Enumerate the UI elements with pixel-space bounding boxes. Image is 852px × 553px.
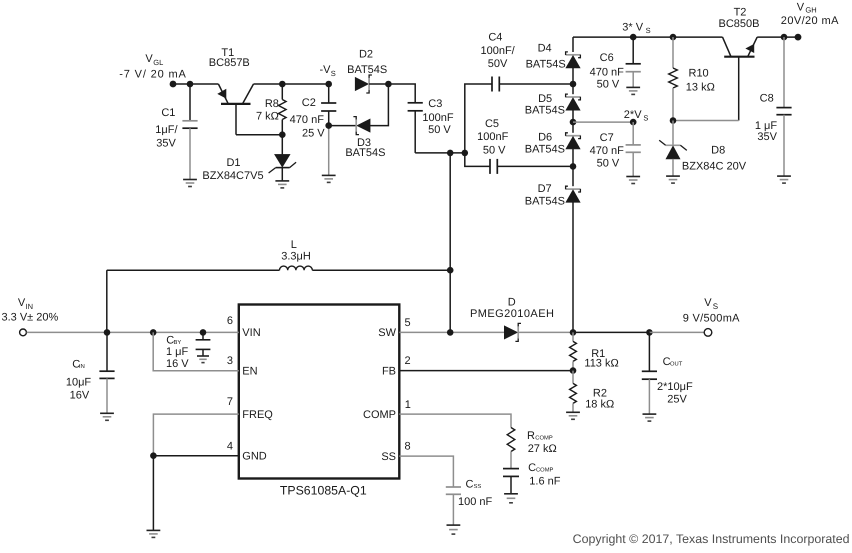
label T2 [719,6,760,30]
svg-text:COMP: COMP [535,434,553,441]
ground (CIN) [100,413,114,420]
label C1 value [155,107,178,150]
svg-text:25 V: 25 V [302,127,325,139]
junction R10 bottom / D8 cathode [670,117,677,124]
ground (C2) [322,175,336,182]
transistor T1 (PNP BC857B) [218,84,254,135]
svg-text:10μF: 10μF [66,377,92,389]
svg-text:V: V [145,53,153,65]
ground (CCOMP) [504,494,518,503]
inductor L (3.3uH) [280,266,313,270]
junction C7 top / 2*VS node [630,119,637,126]
svg-text:16 V: 16 V [166,358,189,370]
junction EN branch [150,329,157,336]
capacitor C5 [490,159,497,174]
capacitor C1 [182,84,197,180]
wire FREQ branch [153,414,238,456]
ground (R2) [566,412,580,419]
junction SW riser top [447,150,454,157]
svg-text:D7: D7 [538,183,552,195]
svg-text:C2: C2 [302,97,316,109]
wire D3 to D2-out node [370,84,388,126]
pin number 3 [227,355,233,367]
wire VIN row [27,331,239,333]
ground (C6) [626,87,640,94]
svg-text:PMEG2010AEH: PMEG2010AEH [470,308,554,320]
schottky diode D (PMEG2010AEH) [504,323,521,341]
svg-text:1μF/: 1μF/ [155,124,178,136]
junction C2 top / -VS node [325,81,332,88]
label T1 [209,47,250,69]
svg-text:18 kΩ: 18 kΩ [585,399,614,411]
label net VGH [781,1,839,27]
label TPS61085A-Q1 [280,483,367,497]
label net VIN [2,297,59,323]
svg-text:IN: IN [79,364,85,370]
wire D2 cathode to C3 [369,84,415,103]
label C5 value [477,118,508,156]
svg-text:C5: C5 [485,118,499,130]
transistor T2 (NPN BC850B) [723,37,758,120]
pin number 4 [227,440,233,452]
svg-text:5: 5 [405,317,411,329]
junction FB node [570,367,577,374]
pin number 6 [227,315,233,327]
label D2 [347,48,387,76]
zener diode D1 (BZX84C7V5) [269,135,297,181]
junction R8 top [279,81,286,88]
svg-text:R: R [527,430,535,442]
svg-text:C: C [528,462,536,474]
wire D7 anode to VS line [572,202,574,332]
wire D cathode to R1 node [519,331,573,333]
svg-text:SS: SS [381,451,396,463]
capacitor C7 [626,122,641,176]
svg-text:C6: C6 [600,52,614,64]
label R10 value [686,67,715,93]
svg-text:6: 6 [227,315,233,327]
svg-text:100nF: 100nF [422,112,453,124]
capacitor C2 [321,84,336,175]
svg-text:8: 8 [405,441,411,453]
svg-text:Copyright © 2017, Texas Instru: Copyright © 2017, Texas Instruments Inco… [573,532,850,546]
capacitor C4 [492,77,499,92]
svg-text:S: S [646,26,651,35]
svg-text:-7 V/ 20 mA: -7 V/ 20 mA [119,68,186,80]
junction C4/C5 branch [462,150,469,157]
svg-text:470 nF: 470 nF [290,114,325,126]
junction COUT top [646,329,653,336]
junction L-SW riser [447,267,454,274]
wire C2 bottom to D3 [329,125,357,127]
svg-text:BAT54S: BAT54S [525,105,565,117]
capacitor COUT [642,332,657,414]
svg-text:VIN: VIN [242,327,260,339]
wire C4 branch [465,84,573,153]
label net 2*VS [624,109,649,122]
pin name COMP [363,409,396,421]
svg-text:BAT54S: BAT54S [525,144,565,156]
junction C8 top [781,34,788,41]
svg-text:3.3 V± 20%: 3.3 V± 20% [2,311,59,323]
svg-text:50 V: 50 V [428,124,451,136]
resistor R10 [669,37,678,120]
wire T1 collector to C2 node [254,83,329,85]
svg-text:C: C [466,479,474,491]
svg-text:SS: SS [474,483,482,490]
label COUT value [657,356,693,406]
junction CBY top [200,329,207,336]
svg-text:470 nF: 470 nF [590,67,625,79]
svg-text:S: S [643,113,648,122]
schottky diode D5 (BAT54S) [566,94,581,110]
svg-text:D6: D6 [538,132,552,144]
wire C5 branch [465,153,573,167]
svg-text:FB: FB [382,365,396,377]
svg-text:BAT54S: BAT54S [345,147,385,159]
resistor RCOMP [507,428,515,469]
schottky diode D6 (BAT54S) [566,133,581,149]
svg-text:COMP: COMP [363,409,396,421]
label C7 value [590,132,625,169]
label CIN value [66,359,92,402]
junction R8 bottom / D1 anode [279,131,286,138]
svg-text:OUT: OUT [670,360,683,367]
label RCOMP value [527,430,557,455]
svg-text:13 kΩ: 13 kΩ [686,82,715,94]
ground (C1) [183,180,197,187]
wire D6 to D7 [572,149,574,186]
wire T1 base to R8 bottom node [236,134,282,136]
wire L to SW riser [312,269,450,271]
capacitor C3 [408,103,423,153]
label R2 value [585,388,614,411]
svg-text:25V: 25V [667,394,687,406]
wire T2 base to R10/D8 node [673,120,739,122]
svg-text:D4: D4 [538,43,552,55]
ground (C7) [626,177,640,184]
wire VGL rail to T1 emitter [173,83,218,85]
label D1 [202,157,263,182]
label D [470,296,554,320]
terminal VS (open) [704,329,712,337]
svg-text:BAT54S: BAT54S [526,58,566,70]
svg-text:BZX84C7V5: BZX84C7V5 [202,170,263,182]
label D5 [525,93,565,117]
svg-text:EN: EN [242,366,257,378]
svg-text:D5: D5 [538,93,552,105]
svg-text:2: 2 [405,355,411,367]
wire D4 to D5 [572,68,574,94]
label D6 [525,132,565,156]
svg-text:100nF: 100nF [477,131,508,143]
junction SW riser bottom [447,329,454,336]
svg-text:C4: C4 [488,32,502,44]
junction chain-C4 node [570,81,577,88]
junction FREQ-GND [150,452,157,459]
label R8 value [256,98,279,122]
svg-text:GH: GH [805,6,816,15]
svg-text:-V: -V [320,64,332,76]
wire FB row [399,370,573,372]
pin number 2 [405,355,411,367]
svg-text:L: L [291,239,297,251]
schottky diode D7 (BAT54S) [566,186,581,202]
label net 3*VS [622,22,650,35]
capacitor CSS [446,487,461,525]
IC U1 TPS61085A-Q1 body [239,305,399,479]
pin name SW [378,327,396,339]
svg-text:113 kΩ: 113 kΩ [584,357,618,369]
junction C1 top [187,81,194,88]
wire D5 to D6 [572,110,574,133]
svg-text:SW: SW [378,327,396,339]
svg-text:BAT54S: BAT54S [347,64,387,76]
junction R10 top [670,34,677,41]
label net VGL [145,53,163,67]
wire SW riser [449,153,451,333]
pin name EN [242,366,257,378]
svg-text:7 kΩ: 7 kΩ [256,111,279,123]
label L value [281,239,311,263]
svg-text:GL: GL [153,58,163,67]
svg-text:GND: GND [242,451,266,463]
schottky diode D4 (BAT54S) [566,52,581,68]
svg-text:1 μF: 1 μF [166,346,189,358]
terminal VGL (filled) [170,81,177,88]
junction C2 bottom / D3 node [325,122,332,129]
svg-text:16V: 16V [70,390,90,402]
svg-text:4: 4 [227,440,233,452]
svg-text:50 V: 50 V [483,144,506,156]
svg-text:C3: C3 [428,98,442,110]
svg-text:7: 7 [227,396,233,408]
svg-text:3* V: 3* V [622,22,643,34]
label net VS [683,297,740,324]
wire 3*VS rail [573,36,723,38]
ground (D1) [275,181,289,188]
svg-text:100nF/: 100nF/ [480,45,515,57]
svg-text:C7: C7 [600,132,614,144]
pin number 7 [227,396,233,408]
svg-text:3.3μH: 3.3μH [281,251,311,263]
schottky diode D2 (BAT54S) [355,75,372,93]
ground (CSS) [447,525,461,534]
svg-text:S: S [713,302,718,311]
svg-text:S: S [331,69,336,78]
ground (COUT) [643,414,657,421]
svg-text:FREQ: FREQ [242,409,273,421]
svg-text:R10: R10 [689,67,709,79]
svg-text:D: D [508,296,516,308]
wire T2 emitter to VGH [757,36,798,38]
resistor R2 [570,371,577,413]
junction chain 2*VS node [570,119,577,126]
label CBY value [166,335,189,371]
svg-text:1: 1 [405,399,411,411]
svg-text:C1: C1 [161,107,175,119]
ground (CBY) [197,356,209,363]
svg-text:D8: D8 [711,144,725,156]
label D8 [682,144,747,172]
svg-text:BC850B: BC850B [719,18,760,30]
svg-text:IN: IN [26,302,33,311]
junction D2 out node [385,81,392,88]
pin name SS [381,451,396,463]
svg-text:BAT54S: BAT54S [525,195,565,207]
svg-text:50 V: 50 V [597,79,620,91]
label C3 value [422,98,453,136]
svg-text:20V/20 mA: 20V/20 mA [781,15,839,27]
wire SS branch [399,456,453,487]
capacitor CBY [196,332,211,356]
label D4 [526,43,566,71]
capacitor C6 [626,37,641,87]
wire SW row [399,331,504,333]
svg-text:35V: 35V [757,131,777,143]
pin name FREQ [242,409,273,421]
label CSS value [458,479,493,508]
svg-text:35V: 35V [156,138,176,150]
ground (GND pin) [147,530,161,537]
svg-text:TPS61085A-Q1: TPS61085A-Q1 [280,483,367,497]
wire EN branch [153,332,239,370]
wire L left leg [107,270,280,332]
svg-text:50 V: 50 V [597,158,620,170]
terminal VIN (open) [20,329,27,336]
svg-text:1.6 nF: 1.6 nF [529,476,560,488]
svg-text:COMP: COMP [536,466,554,473]
pin name FB [382,365,396,377]
label R1 value [584,348,618,369]
junction D-R1-D7 node [570,329,577,336]
label C2 value [290,97,326,139]
wire C3 bottom to pump node [415,152,465,154]
wire COMP branch [399,414,511,427]
label D3 [345,137,385,159]
schottky diode D3 (BAT54S) [353,117,370,135]
label -7 V/ 20 mA [119,68,186,80]
svg-text:27 kΩ: 27 kΩ [528,443,557,455]
svg-text:100 nF: 100 nF [458,496,493,508]
label C8 value [755,93,778,143]
capacitor CCOMP [503,469,519,494]
resistor R8 [279,84,287,135]
junction C6 top [630,34,637,41]
resistor R1 [570,332,577,370]
svg-text:V: V [704,297,712,309]
wire 2*VS link [573,121,633,123]
label CCOMP value [528,462,561,488]
svg-text:D1: D1 [226,157,240,169]
wire 3*VS rail to D4 [572,37,574,52]
label C6 value [590,52,625,91]
junction chain-C5 node [570,163,577,170]
terminal VGH (filled) [795,34,802,41]
svg-text:BC857B: BC857B [209,57,250,69]
ground (C8) [777,176,791,183]
wire COUT to VS terminal [649,331,704,333]
wire R1 node to COUT [573,331,649,333]
svg-text:D2: D2 [359,48,373,60]
label C4 value [480,32,515,71]
pin number 8 [405,441,411,453]
svg-text:V: V [797,1,805,13]
svg-text:470 nF: 470 nF [590,145,625,157]
junction CIN top [104,329,111,336]
svg-text:T2: T2 [734,6,747,18]
svg-text:R8: R8 [265,98,279,110]
svg-text:50V: 50V [488,58,508,70]
svg-text:BZX84C 20V: BZX84C 20V [682,161,747,173]
svg-text:3: 3 [227,355,233,367]
svg-text:9 V/500mA: 9 V/500mA [683,312,740,324]
svg-text:C8: C8 [760,93,774,105]
svg-text:2*10μF: 2*10μF [657,381,693,393]
zener diode D8 (BZX84C 20V) [659,121,687,177]
label D7 [525,183,565,207]
pin number 5 [405,317,411,329]
wire GND pin to ground [153,456,238,531]
pin name VIN [242,327,260,339]
pin name GND [242,451,266,463]
capacitor CIN [99,332,114,413]
pin number 1 [405,399,411,411]
label copyright [573,532,850,546]
capacitor C8 [776,37,791,176]
label net -VS [320,64,336,78]
ground (D8) [666,176,680,183]
svg-text:2*V: 2*V [624,109,642,121]
